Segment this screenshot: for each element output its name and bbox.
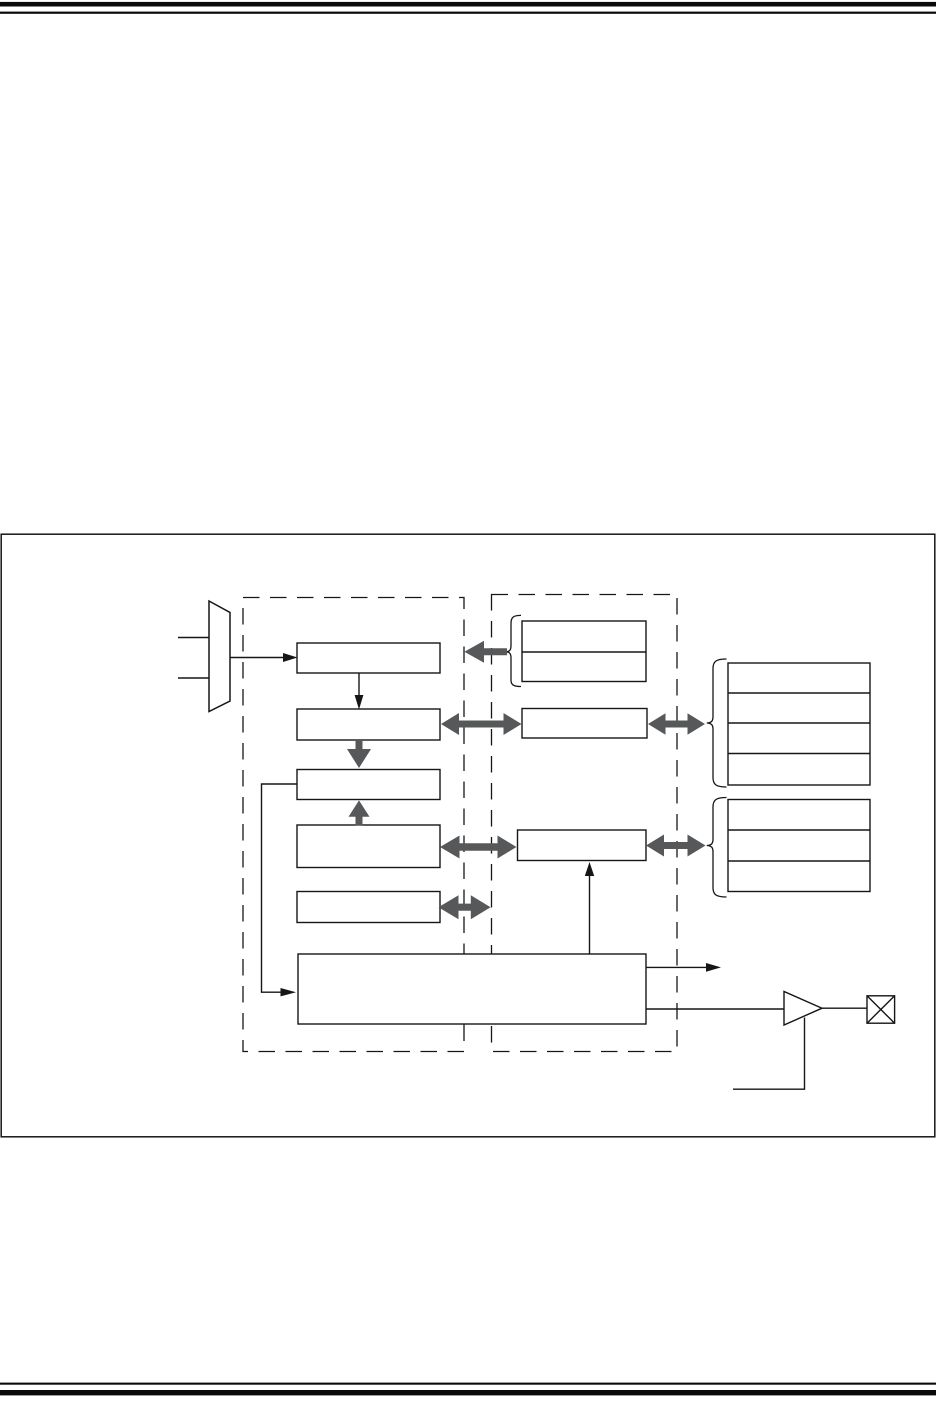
top thick rule	[0, 2, 936, 7]
buffer triangle	[784, 992, 822, 1026]
gray double arrow B6 to stack 2	[646, 835, 706, 857]
wire big block output arrow	[646, 966, 707, 968]
bottom thin rule	[0, 1383, 936, 1385]
brace for two-row register box	[506, 615, 521, 686]
gray double arrow B4 to stack 1	[648, 713, 705, 734]
pin symbol (crossed box)	[867, 996, 895, 1023]
gray double arrow B5 to B6	[440, 836, 517, 859]
dashed region left	[243, 598, 464, 1052]
bottom thick rule	[0, 1390, 936, 1395]
gray down arrow B2 to B3	[347, 740, 371, 768]
block B4	[522, 709, 647, 739]
mux input wire 1	[178, 637, 209, 639]
big block	[298, 954, 646, 1024]
feedback wire B3 to big block	[262, 784, 298, 992]
wire B1 to B2	[358, 673, 360, 698]
block B2	[297, 709, 440, 740]
wire big block to buffer	[646, 1008, 784, 1010]
mux input wire 2	[178, 677, 209, 679]
wire mux output to block B1	[230, 657, 285, 659]
gray arrow two-row box to B1	[464, 641, 507, 663]
block B1	[297, 643, 440, 673]
block B5	[297, 825, 440, 868]
two-row register box	[522, 621, 646, 682]
gray double arrow B2 to B4	[441, 713, 522, 735]
gray up arrow B5 to B3	[349, 800, 370, 825]
wire big block to B6	[589, 874, 591, 954]
block B3	[297, 770, 440, 800]
top thin rule	[0, 12, 936, 14]
brace for register stack 1	[707, 659, 727, 787]
register stack 1 (4 rows)	[728, 663, 870, 785]
wire buffer to pin	[822, 1007, 867, 1009]
block B7	[297, 892, 440, 923]
block B6	[518, 830, 647, 861]
dashed region right	[492, 595, 678, 1052]
gray double arrow B7	[438, 895, 490, 919]
brace for register stack 2	[707, 798, 727, 898]
figure frame	[1, 534, 935, 1137]
two-row register divider	[522, 651, 646, 653]
register stack 2 (3 rows)	[728, 800, 870, 892]
buffer enable wire	[733, 1018, 805, 1090]
mux trapezoid	[209, 601, 230, 712]
